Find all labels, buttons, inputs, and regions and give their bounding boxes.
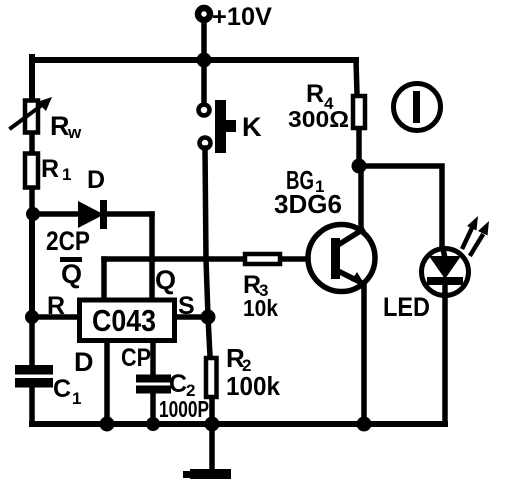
node R2 bus junction [205,417,220,432]
wire bottom bus [32,421,445,427]
resistor R1 [25,154,38,188]
node emitter bus junction [357,417,372,432]
wire emitter down [361,285,367,424]
wire terminal to top bus [201,21,207,60]
node top bus junction [197,53,212,68]
svg-text:w: w [67,123,82,142]
wire K column upper [201,60,207,100]
svg-text:C: C [53,375,71,403]
svg-text:1: 1 [62,165,71,184]
resistor Rw [25,101,38,133]
svg-text:1000P: 1000P [159,396,209,422]
diode D 2CP [33,200,152,229]
resistor R4 [353,96,365,128]
svg-text:C043: C043 [92,303,156,338]
wire R2 to bus [209,399,215,424]
svg-text:Q: Q [155,265,176,295]
wire left rail top [29,57,35,100]
resistor R2 [206,358,217,397]
svg-text:+10V: +10V [212,3,272,31]
wire left rail middle [29,214,35,319]
wire top bus corner to R4 [356,60,357,94]
label Q-bar [60,257,82,289]
svg-text:300Ω: 300Ω [288,106,349,132]
wire left rail to C1 [29,317,35,365]
wire C1 to bottom bus [29,386,35,424]
wire Rw to R1 [29,135,35,153]
node R pin junction [25,310,39,324]
LED light arrows [463,216,489,254]
wire R4 to collector junction [356,130,362,166]
switch K contacts [199,105,210,116]
svg-text:R: R [306,80,324,108]
op-amp U1 C043 IC body [80,300,175,341]
wire Q-bar riser [101,259,107,295]
node S junction [201,310,216,325]
wire C2 to bus [150,393,156,424]
node C2 bus junction [146,417,160,431]
node diode junction [26,207,40,221]
capacitor C1 [15,365,53,388]
wire LED to bottom bus [442,295,448,424]
svg-text:1: 1 [72,389,81,408]
wire R pin [32,314,77,320]
svg-text:D: D [87,166,105,194]
transistor Q1 BG1 [308,225,375,292]
svg-text:LED: LED [383,292,430,322]
svg-text:C: C [169,370,187,398]
wire collector junction to LED [359,166,442,249]
svg-text:10k: 10k [243,295,278,321]
wire top bus [32,57,356,63]
wire R1 down to diode node [29,190,35,217]
wire S pin [176,314,208,320]
node D pin bus junction [100,417,115,432]
LED D2 [422,249,469,296]
svg-text:K: K [242,112,262,142]
svg-text:2CP: 2CP [46,226,90,256]
svg-text:D: D [74,347,94,377]
switch K actuator [215,100,236,153]
wire diode cathode down to Q pin [149,214,155,295]
svg-text:CP: CP [121,344,151,372]
wire collector up [358,166,364,230]
wire Rw arrow [11,102,46,128]
wire CP pin down [150,343,156,375]
ground [183,424,231,479]
svg-text:Q: Q [61,259,82,289]
resistor R3 [245,254,331,264]
wire S junction to R2 [208,317,210,356]
capacitor C2 [136,375,171,394]
terminal +10V [198,8,210,20]
wire D pin down [104,343,110,424]
svg-text:R: R [41,155,59,183]
svg-text:3DG6: 3DG6 [274,189,342,219]
node collector junction [352,159,367,174]
svg-text:R: R [50,111,70,141]
meter I [394,84,441,131]
wire Q-bar horizontal to R3 [104,256,243,262]
wire K to S junction [205,148,208,317]
svg-text:100k: 100k [226,371,281,401]
